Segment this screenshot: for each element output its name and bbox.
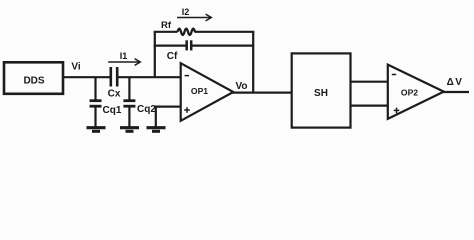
OP1 non-inverting pin mark [184,109,190,111]
wire: SH upper output to OP2 - input [351,81,388,83]
wire: feedback left vertical (inverting node up to feedback loops) [154,32,156,77]
capacitor Cf [185,40,188,50]
wire: Cx right plate to OP1 inverting input [117,76,181,78]
svg-text:Vi: Vi [71,62,80,73]
wire: OP1 output to SH input [232,91,292,93]
op-amp U2 (OP2) [388,65,444,119]
SH sample-hold block [292,53,351,127]
wire: DDS output to Cx left plate [64,76,111,78]
OP1 inverting pin mark [185,75,189,77]
svg-text:Vo: Vo [235,81,247,92]
svg-text:DDS: DDS [23,76,44,87]
svg-text:I2: I2 [182,7,190,17]
svg-text:Cq1: Cq1 [103,105,122,116]
resistor Rf [178,29,196,35]
svg-text:Cf: Cf [167,51,178,62]
OP2 non-inverting pin mark [394,109,400,111]
DDS source block [4,62,63,94]
svg-text:Cx: Cx [108,89,121,100]
svg-text:SH: SH [314,88,328,99]
ground (OP1 + input) [147,126,166,129]
capacitor Cq2 [123,99,135,102]
capacitor Cq1 [90,99,102,102]
wire: feedback right vertical (down to output node) [252,32,254,93]
current I1 arrow [108,61,139,63]
wire: OP1 + input to ground [156,107,181,127]
wire: SH lower output to OP2 + input [351,104,388,106]
wire: OP2 output [443,91,470,93]
current I2 arrow [177,17,211,19]
capacitor Cx (series) [110,67,113,87]
wire: Rf loop top-left segment [154,31,178,33]
op-amp U1 (OP1) [181,63,234,121]
ground (below Cq1) [87,126,106,129]
OP2 inverting pin mark [392,74,396,76]
capacitor Cq2 branch wire [128,77,130,100]
ground (below Cq2) [120,126,139,129]
svg-text:I1: I1 [120,51,128,61]
svg-text:OP2: OP2 [401,88,418,98]
wire: Rf loop top-right segment [195,31,255,33]
svg-text:Cq2: Cq2 [137,104,156,115]
capacitor Cq1 branch wire [94,77,96,100]
wire: Cf loop right segment [191,44,253,46]
svg-text:OP1: OP1 [191,86,208,96]
wire: Cf loop left segment [154,44,187,46]
svg-text:Rf: Rf [161,20,172,31]
svg-text:ΔV: ΔV [447,77,464,88]
